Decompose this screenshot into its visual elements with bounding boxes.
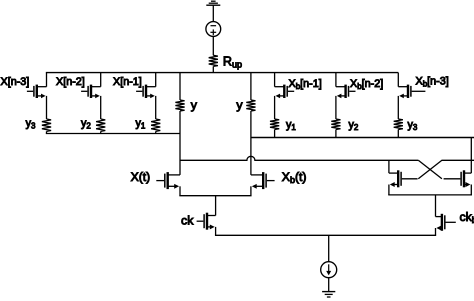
- svg-text:y: y: [236, 98, 243, 112]
- svg-text:ckb: ckb: [460, 210, 474, 225]
- svg-text:y3: y3: [408, 119, 418, 132]
- label Rup: [223, 54, 242, 69]
- svg-text:Xb[n-3]: Xb[n-3]: [416, 76, 449, 89]
- label X[n-3]: [1, 76, 30, 88]
- wire node P horizontal with crossover hop: [180, 156, 418, 160]
- wire diff pair common source rail: [179, 195, 251, 197]
- wire source M5 to resistor y2: [335, 96, 337, 119]
- transistor M1 X[n-3]: [27, 85, 47, 99]
- wire tail rail to current source: [328, 235, 330, 261]
- label y2 (left): [81, 117, 91, 130]
- svg-text:Rup: Rup: [223, 54, 242, 69]
- wire cross pair common source rail: [388, 194, 472, 196]
- wire source ckb down: [435, 228, 437, 235]
- voltage source (top): [206, 22, 221, 37]
- label X[n-2]: [56, 76, 85, 88]
- transistor M9 ck: [197, 213, 216, 230]
- wire source M3 to resistor y1: [155, 96, 157, 119]
- wire current source to ground: [328, 278, 330, 292]
- wire node N vertical (right y resistor to Xb(t) drain): [250, 111, 252, 175]
- wire source ck down: [215, 227, 217, 235]
- wire source M6 to resistor y3: [397, 96, 399, 119]
- label Xb[n-1]: [289, 78, 322, 91]
- transistor M4 Xb[n-1]: [275, 85, 295, 99]
- wire drain M2 to top rail: [100, 73, 102, 87]
- svg-text:X[n-1]: X[n-1]: [113, 76, 142, 88]
- resistor y1 (right): [270, 119, 279, 138]
- wire ML source down: [388, 185, 390, 195]
- label ck: [181, 214, 194, 228]
- label y (left): [191, 98, 198, 112]
- transistor M12 ckb: [436, 214, 456, 231]
- wire drain M3 to top rail: [155, 73, 157, 87]
- transistor M8 Xb(t): [251, 172, 275, 189]
- resistor y2 (left): [96, 119, 105, 134]
- resistor y (right): [246, 100, 255, 111]
- label y1 (right): [286, 119, 296, 132]
- wire top rail to resistor y (right): [250, 73, 252, 100]
- wire top rail to resistor y (left): [179, 73, 181, 100]
- svg-text:y2: y2: [81, 117, 91, 130]
- wire MR source down: [470, 185, 472, 195]
- label Xb[n-3]: [416, 76, 449, 89]
- svg-text:X[n-3]: X[n-3]: [1, 76, 30, 88]
- transistor M10 (cross-coupled left): [389, 170, 418, 187]
- wire source M4 to resistor y1: [274, 96, 276, 119]
- svg-text:X[n-2]: X[n-2]: [56, 76, 85, 88]
- wire drain M6 to top rail: [397, 73, 399, 87]
- wire drain M1 to top rail: [46, 73, 48, 87]
- svg-text:ck: ck: [181, 214, 194, 228]
- wire node P to ML drain: [388, 160, 390, 173]
- wire ML gate to cross (up diagonal): [418, 160, 474, 179]
- resistor Rup: [209, 55, 218, 72]
- transistor M6 Xb[n-3]: [398, 85, 425, 99]
- transistor M11 (cross-coupled right): [444, 170, 472, 187]
- label X[n-1]: [113, 76, 142, 88]
- label y3 (left): [26, 117, 36, 130]
- label X(t): [131, 170, 151, 184]
- label Xb[n-2]: [350, 78, 383, 91]
- wire right block lower rail (node N): [251, 137, 474, 139]
- ground (bottom): [322, 292, 335, 297]
- wire top rail: [46, 72, 398, 74]
- resistor y3 (left): [42, 119, 51, 134]
- svg-text:y: y: [191, 98, 198, 112]
- wire drain M4 to top rail: [274, 73, 276, 87]
- transistor M2 X[n-2]: [81, 85, 101, 99]
- wire source X(t) down: [179, 186, 181, 195]
- wire source M2 to resistor y2: [100, 96, 102, 119]
- wire drain M5 to top rail: [335, 73, 337, 87]
- svg-text:Xb[n-2]: Xb[n-2]: [350, 78, 383, 91]
- transistor M3 X[n-1]: [136, 85, 156, 99]
- wire left block lower rail: [46, 133, 180, 135]
- wire source Xb(t) down: [250, 186, 252, 195]
- resistor y3 (right): [394, 119, 403, 138]
- wire node P down diagonal to MR gate: [418, 160, 442, 179]
- wire tail tap to ck drain: [215, 196, 217, 216]
- wire tail rail: [215, 234, 436, 236]
- svg-text:X(t): X(t): [131, 170, 151, 184]
- label y1 (left): [136, 117, 146, 130]
- wire voltage source to Rup: [212, 36, 214, 55]
- wire cross source tap to ckb drain: [435, 195, 437, 217]
- label ckb: [460, 210, 474, 225]
- svg-text:y3: y3: [26, 117, 36, 130]
- label y (right): [236, 98, 243, 112]
- label y3 (right): [408, 119, 418, 132]
- resistor y2 (right): [331, 119, 340, 138]
- wire MR drain to node N rail: [470, 138, 472, 174]
- ground (top, at voltage source): [206, 1, 220, 21]
- wire source M1 to resistor y3: [46, 96, 48, 119]
- svg-text:Xb(t): Xb(t): [282, 170, 307, 185]
- svg-text:y1: y1: [136, 117, 146, 130]
- svg-text:y2: y2: [349, 119, 359, 132]
- svg-text:Xb[n-1]: Xb[n-1]: [289, 78, 322, 91]
- label Xb(t): [282, 170, 307, 185]
- current source (tail): [321, 262, 337, 278]
- transistor M7 X(t): [156, 172, 180, 189]
- transistor M5 Xb[n-2]: [336, 85, 356, 99]
- svg-text:y1: y1: [286, 119, 296, 132]
- label y2 (right): [349, 119, 359, 132]
- wire node P vertical (left y resistor to X(t) drain): [179, 111, 181, 175]
- resistor y (left): [175, 100, 184, 111]
- resistor y1 (left): [151, 119, 160, 134]
